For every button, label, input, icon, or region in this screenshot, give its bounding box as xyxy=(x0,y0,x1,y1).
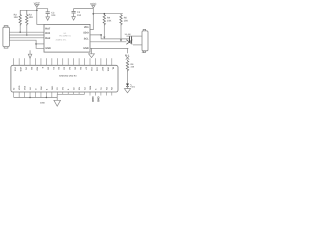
capacitor C2 xyxy=(72,9,82,17)
ground C3 xyxy=(46,17,50,21)
wire R3 bottom xyxy=(26,26,28,35)
svg-text:RW: RW xyxy=(40,87,43,90)
wire VCC1 stem xyxy=(37,7,44,24)
wire R6 to LED xyxy=(127,72,129,84)
node net-label GND3 xyxy=(91,96,94,102)
node VCC2-junction xyxy=(93,13,95,15)
svg-text:RX0: RX0 xyxy=(45,32,50,35)
svg-text:VO: VO xyxy=(62,87,65,90)
svg-text:RST: RST xyxy=(101,67,104,72)
wire U1 SDO out xyxy=(90,35,129,39)
power VCC2 xyxy=(90,2,97,8)
svg-text:VSS: VSS xyxy=(24,85,27,90)
svg-text:VD1: VD1 xyxy=(84,26,89,29)
wire C3 branch xyxy=(37,9,48,12)
wire VCC2 stem xyxy=(90,8,93,30)
svg-text:GND: GND xyxy=(97,96,100,102)
crystal X1 xyxy=(125,33,133,44)
connector J1 xyxy=(3,26,9,48)
svg-text:20MHZ XTL: 20MHZ XTL xyxy=(56,38,68,41)
ground C2 xyxy=(72,17,76,21)
node w4-branch xyxy=(35,43,37,45)
svg-text:RA2: RA2 xyxy=(45,37,51,40)
wire backlight feed xyxy=(127,48,129,53)
wire top pin stubs xyxy=(14,58,112,65)
capacitor C3 xyxy=(46,11,56,17)
wire X1 to J2 bottom xyxy=(133,44,142,46)
svg-text:RA7: RA7 xyxy=(45,27,51,30)
wire bottom pin stubs group2 xyxy=(57,92,84,94)
svg-text:VDD: VDD xyxy=(19,67,22,72)
U2 top pin labels xyxy=(14,67,115,72)
power arrow pin4 xyxy=(28,50,32,58)
resistor R3 xyxy=(26,10,34,26)
op-amp U1 (MCU box) xyxy=(44,24,90,52)
diode D1 (LED) xyxy=(126,84,136,89)
wire R2 bottom xyxy=(19,26,21,32)
node rail1 xyxy=(29,97,30,98)
svg-text:RW: RW xyxy=(35,67,38,70)
node R3-w2 xyxy=(26,34,28,36)
ground U1 right xyxy=(89,48,95,57)
wire C2 to VCC2 xyxy=(74,8,94,10)
svg-text:10K: 10K xyxy=(124,20,129,23)
wire w2 xyxy=(9,34,44,36)
power VCC1 xyxy=(34,1,41,7)
wire resistor-top rail xyxy=(20,9,37,11)
svg-text:10K: 10K xyxy=(29,16,34,19)
wire gnd rail 1 xyxy=(14,97,58,99)
wire R5 bottom + arrow xyxy=(120,26,122,42)
wire w4 xyxy=(9,40,44,48)
node SDO corner xyxy=(100,34,102,36)
svg-text:GND: GND xyxy=(83,47,89,50)
svg-text:VSS: VSS xyxy=(14,67,17,72)
wire U1 gnd pin to right xyxy=(90,47,128,49)
svg-text:EN: EN xyxy=(78,87,81,90)
svg-text:PIC16F877A: PIC16F877A xyxy=(59,34,71,37)
svg-text:VDD: VDD xyxy=(18,85,21,90)
resistor R5 xyxy=(120,14,129,26)
wire X1 to J2 top xyxy=(126,35,142,37)
svg-text:GND: GND xyxy=(40,101,45,104)
svg-text:10K: 10K xyxy=(107,20,112,23)
svg-text:ARDUINO UNO R3: ARDUINO UNO R3 xyxy=(59,75,77,78)
svg-text:IO: IO xyxy=(13,87,16,90)
svg-text:SDO: SDO xyxy=(83,32,88,35)
svg-text:GND: GND xyxy=(45,47,51,50)
svg-text:VEE: VEE xyxy=(106,67,109,72)
node R2-w1 xyxy=(19,31,21,33)
resistor R4 xyxy=(103,14,112,26)
wire w1 xyxy=(9,31,44,33)
wire gnd rail 2 xyxy=(57,93,84,95)
resistor R2 xyxy=(14,10,22,26)
svg-text:104: 104 xyxy=(51,14,56,17)
node BL cross symbol xyxy=(126,56,129,60)
node net-label GND4 xyxy=(97,96,100,102)
wire U1 SCL out xyxy=(90,41,126,43)
resistor R6 xyxy=(126,60,135,72)
wire w3 xyxy=(9,37,44,39)
svg-text:10K: 10K xyxy=(14,16,19,19)
module U2 (bottom block) xyxy=(11,65,118,92)
ground main xyxy=(54,100,61,106)
node rail1b xyxy=(46,97,47,98)
U2 bottom pin labels xyxy=(13,85,114,90)
ground D1 xyxy=(124,87,130,93)
wire w4 to pin xyxy=(36,43,44,45)
node VCC1-junction xyxy=(36,10,38,12)
wire rail link xyxy=(56,94,58,100)
wire bottom pin stubs group1 xyxy=(14,92,52,98)
svg-text:GND: GND xyxy=(91,96,94,102)
wire bottom pin stubs group3 xyxy=(90,92,112,96)
wire R4 bottom + arrow xyxy=(103,26,105,39)
connector J2 xyxy=(142,29,148,54)
svg-text:104: 104 xyxy=(77,14,82,17)
svg-text:VO: VO xyxy=(25,67,28,70)
node R4-top xyxy=(104,13,106,15)
svg-text:SCL: SCL xyxy=(84,38,89,41)
wire VCC rail right xyxy=(93,13,123,15)
